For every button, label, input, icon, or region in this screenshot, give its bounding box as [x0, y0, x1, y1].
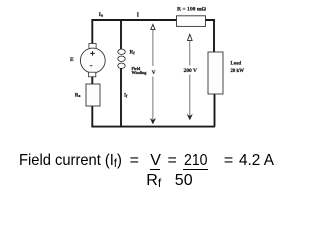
svg-text:R = 100 mΩ: R = 100 mΩ [177, 7, 206, 13]
load box [208, 52, 223, 94]
svg-text:200 V: 200 V [183, 68, 197, 74]
svg-text:Winding: Winding [132, 70, 147, 75]
arrow 200 V [187, 34, 192, 120]
dc source E: armature circle [80, 48, 105, 73]
equation text: Field current (If) = V/Rf = 210/50 = 4.2 A [19, 153, 122, 169]
field winding coil Rf [118, 49, 125, 68]
svg-text:Ia: Ia [99, 12, 104, 18]
svg-text:E: E [70, 57, 74, 63]
wire: bottom brush to Ra [91, 77, 93, 84]
resistor Ra box [86, 84, 100, 106]
wire: bottom horizontal [92, 126, 215, 128]
wire: resistor R to top-right corner down to load [206, 20, 215, 52]
svg-text:20 kW: 20 kW [231, 69, 245, 74]
svg-text:V: V [152, 70, 156, 76]
wire: top horizontal from top-left corner to resistor R [92, 20, 176, 44]
wire: Ra to bottom-left corner [91, 106, 93, 128]
label + polarity [90, 51, 94, 55]
svg-text:I: I [137, 13, 140, 19]
svg-text:Rf: Rf [130, 50, 136, 56]
dc source E: bottom brush [89, 72, 96, 77]
svg-text:Ra: Ra [75, 93, 81, 98]
label - polarity [90, 65, 93, 67]
wire: load bottom to bottom-right corner [214, 94, 216, 127]
svg-text:If: If [124, 93, 128, 99]
svg-text:Load: Load [231, 62, 242, 67]
arrow V (voltage across field) [150, 24, 155, 124]
resistor R box [177, 16, 206, 27]
wire: field branch top (junction to coil) [120, 19, 122, 50]
dc source E: top brush [89, 44, 96, 49]
wire: coil bottom to bottom wire [120, 68, 122, 128]
